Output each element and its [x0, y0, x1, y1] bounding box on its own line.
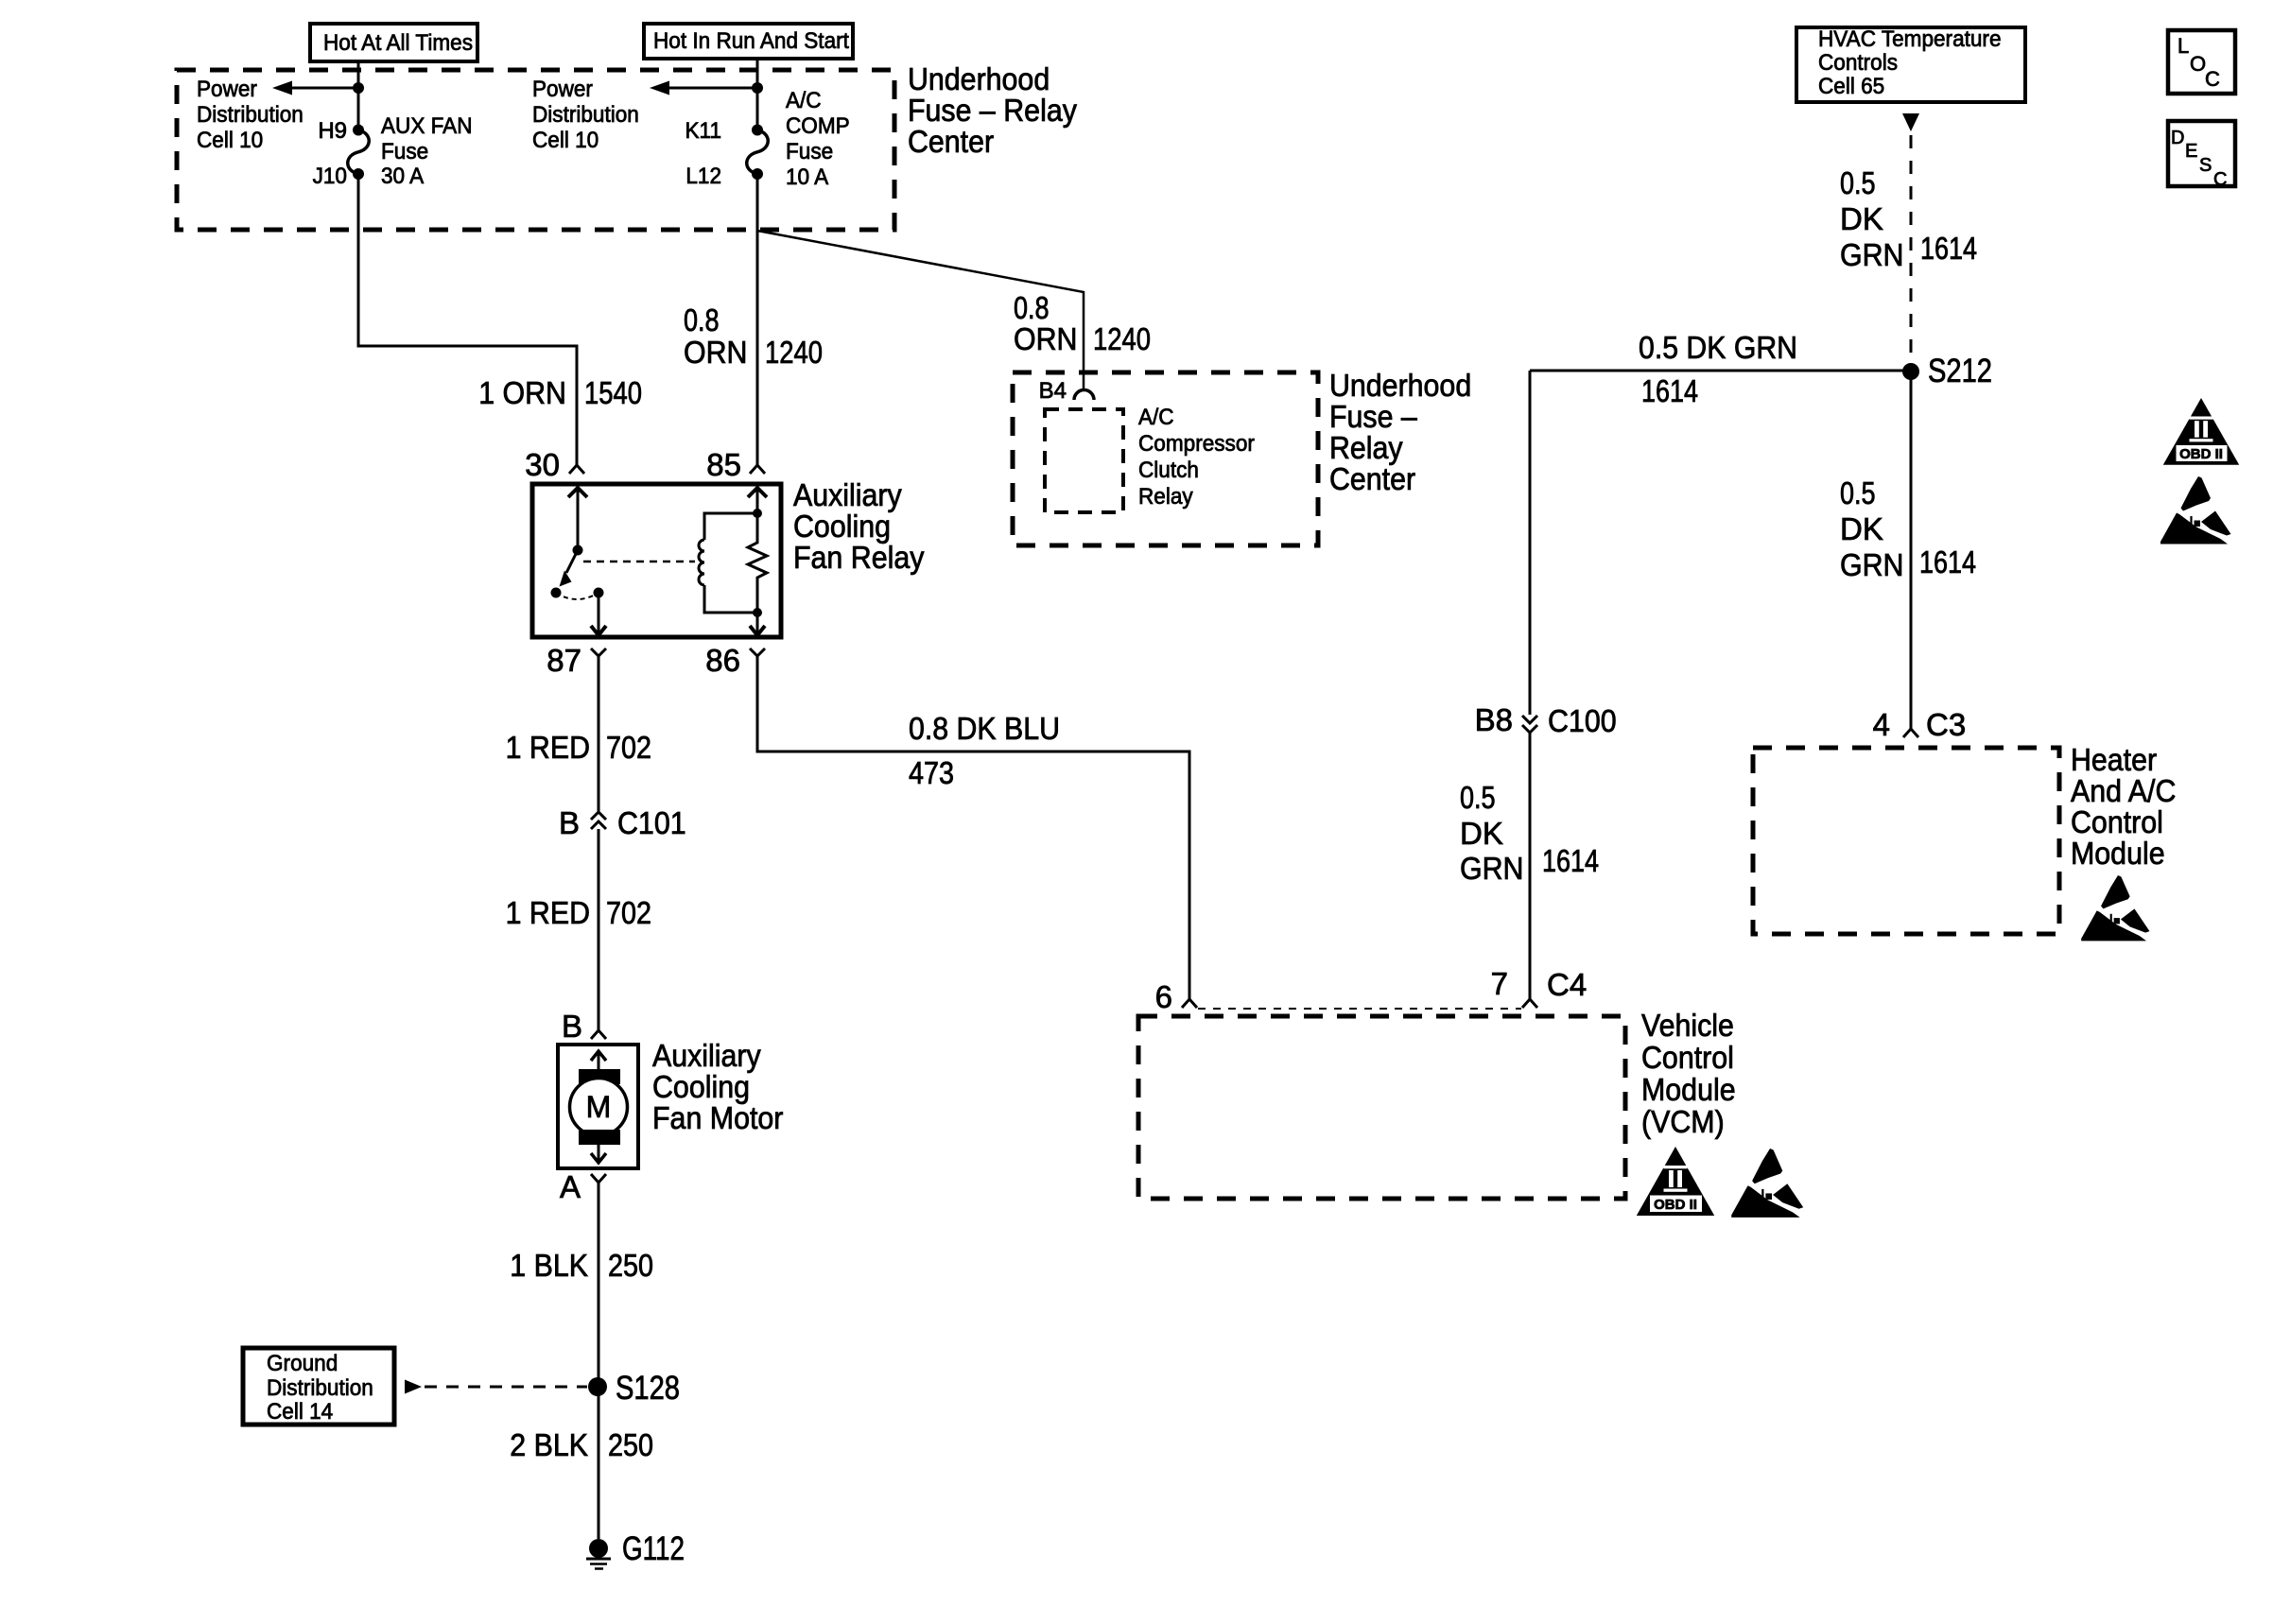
node junction on wire 1	[353, 82, 364, 94]
node coil bottom	[753, 608, 762, 617]
VCM dashed box	[1138, 1016, 1625, 1199]
svg-text:Fuse: Fuse	[786, 139, 833, 164]
svg-text:250: 250	[608, 1248, 653, 1283]
label Power Distribution Cell 10 (left)	[197, 77, 304, 153]
svg-text:E: E	[2185, 141, 2197, 162]
svg-text:OBD II: OBD II	[2179, 446, 2223, 462]
connector B4 arc	[1074, 390, 1094, 401]
connector chevron pin 30	[569, 465, 584, 474]
svg-text:Underhood: Underhood	[908, 61, 1050, 96]
arrow to Power Distribution (right)	[650, 81, 757, 95]
svg-text:B: B	[559, 805, 580, 840]
arrow to Power Distribution (left)	[272, 81, 358, 95]
ESD symbol (top right)	[2160, 476, 2231, 544]
label Underhood Fuse - Relay Center 2	[1329, 368, 1471, 496]
svg-text:87: 87	[547, 643, 581, 678]
dashed wire HVAC to S212	[1910, 135, 1913, 362]
splice S128	[588, 1377, 607, 1396]
svg-text:0.8: 0.8	[684, 302, 720, 337]
arrow triangle below HVAC box	[1902, 113, 1919, 131]
svg-text:Heater: Heater	[2071, 742, 2157, 777]
label 0.8 DK BLU 473	[909, 711, 1060, 790]
HVAC Temperature Controls Cell 65 box	[1796, 26, 2025, 102]
svg-text:1 BLK: 1 BLK	[510, 1248, 588, 1283]
relay internal wire to pin 87 arrow	[591, 593, 606, 635]
label AUX FAN Fuse 30 A	[381, 113, 473, 189]
svg-text:6: 6	[1155, 979, 1172, 1014]
svg-text:Cooling: Cooling	[652, 1069, 750, 1104]
svg-text:Cell 14: Cell 14	[267, 1399, 333, 1425]
A/C Compressor Clutch Relay inner dashed box	[1045, 409, 1123, 512]
dashed wire to S128	[425, 1386, 587, 1389]
svg-text:C: C	[2213, 169, 2227, 190]
header box Hot In Run And Start	[644, 24, 853, 59]
connector chevron motor pin A	[591, 1174, 606, 1183]
svg-text:250: 250	[608, 1427, 653, 1462]
fuse F1 AUX FAN 30A	[348, 125, 370, 181]
resistor R1 (relay)	[748, 513, 767, 613]
svg-text:B4: B4	[1039, 378, 1067, 404]
svg-text:DK: DK	[1840, 201, 1883, 236]
svg-text:Ground: Ground	[267, 1351, 338, 1376]
svg-text:Fan Motor: Fan Motor	[652, 1100, 783, 1135]
svg-text:G112: G112	[622, 1530, 685, 1567]
connector C100 chevrons	[1522, 716, 1537, 733]
svg-text:ORN: ORN	[1014, 321, 1078, 356]
svg-text:1540: 1540	[584, 375, 642, 410]
svg-text:AUX FAN: AUX FAN	[381, 113, 473, 139]
relay coil L1	[699, 513, 757, 613]
svg-text:C3: C3	[1926, 707, 1966, 742]
relay U1 Auxiliary Cooling Fan Relay box	[532, 484, 781, 637]
Ground Distribution Cell 14 box	[243, 1348, 394, 1425]
svg-text:0.5 DK GRN: 0.5 DK GRN	[1639, 330, 1797, 365]
svg-text:GRN: GRN	[1460, 851, 1524, 886]
label 0.8 ORN 1240 (wire 2)	[684, 302, 823, 370]
svg-text:Auxiliary: Auxiliary	[652, 1038, 761, 1073]
connector chevron pin 4 C3	[1903, 729, 1918, 737]
svg-text:B8: B8	[1475, 702, 1513, 737]
svg-text:DK: DK	[1460, 816, 1503, 851]
relay pin 30 internal arrow	[568, 488, 587, 550]
svg-text:10 A: 10 A	[786, 164, 828, 190]
svg-text:Fuse: Fuse	[381, 139, 428, 164]
svg-text:B: B	[562, 1009, 582, 1044]
svg-text:D: D	[2171, 128, 2184, 148]
OBD II symbol (VCM)	[1637, 1147, 1714, 1216]
label 0.5 DK GRN 1614 (top)	[1840, 165, 1977, 272]
label Heater And A/C Control Module	[2071, 742, 2176, 871]
label 1 RED 702 (upper)	[506, 730, 651, 765]
svg-text:ORN: ORN	[684, 335, 748, 370]
svg-text:(VCM): (VCM)	[1641, 1104, 1725, 1139]
svg-text:C101: C101	[617, 805, 686, 840]
svg-text:Relay: Relay	[1138, 484, 1193, 510]
svg-text:Vehicle: Vehicle	[1641, 1008, 1734, 1043]
label 1 RED 702 (lower)	[506, 895, 651, 930]
wire corner down to C100	[1529, 371, 1532, 715]
motor M1 Auxiliary Cooling Fan Motor	[558, 1045, 638, 1168]
connector chevron pin 7	[1522, 999, 1537, 1008]
svg-text:C100: C100	[1548, 703, 1617, 738]
svg-text:Underhood: Underhood	[1329, 368, 1471, 403]
svg-text:Module: Module	[2071, 836, 2165, 871]
svg-text:1614: 1614	[1920, 231, 1977, 266]
svg-text:0.5: 0.5	[1460, 780, 1496, 815]
svg-text:Hot At All Times: Hot At All Times	[323, 30, 473, 56]
svg-text:2 BLK: 2 BLK	[510, 1427, 588, 1462]
svg-text:Power: Power	[532, 77, 593, 102]
wire C101 down to motor	[598, 829, 600, 1030]
svg-text:Auxiliary: Auxiliary	[793, 477, 902, 512]
relay switch contact node	[551, 588, 562, 598]
svg-text:Distribution: Distribution	[532, 102, 639, 128]
svg-text:473: 473	[909, 755, 954, 790]
DESC box	[2168, 121, 2235, 190]
label A/C Compressor Clutch Relay	[1138, 405, 1255, 510]
relay coil control dashed line	[583, 561, 695, 563]
wire pin 86 to VCM pin 6	[757, 656, 1189, 999]
wire C100 down to VCM pin 7	[1529, 733, 1532, 999]
svg-text:C4: C4	[1547, 967, 1587, 1002]
svg-text:1 ORN: 1 ORN	[478, 375, 566, 410]
svg-text:Module: Module	[1641, 1072, 1736, 1107]
wire S212 down to C3	[1910, 371, 1913, 729]
wire from Hot At All Times into fuse box	[357, 61, 360, 130]
fuse F2 A/C COMP 10A	[747, 125, 769, 181]
svg-text:L: L	[2178, 34, 2189, 58]
svg-text:Power: Power	[197, 77, 257, 102]
svg-text:702: 702	[606, 730, 651, 765]
node junction on wire 2	[752, 82, 763, 94]
svg-text:OBD II: OBD II	[1654, 1197, 1697, 1213]
svg-text:Compressor: Compressor	[1138, 431, 1255, 457]
svg-text:Fuse –: Fuse –	[1329, 399, 1417, 434]
ESD symbol (VCM)	[1731, 1149, 1803, 1218]
label A/C COMP Fuse 10 A	[786, 88, 850, 190]
wire L12 down to relay pin 85	[756, 174, 759, 465]
splice S212	[1902, 363, 1919, 380]
svg-text:And A/C: And A/C	[2071, 773, 2176, 808]
connector chevron pin 87	[591, 648, 606, 656]
relay switch blade	[560, 550, 579, 587]
svg-text:GRN: GRN	[1840, 547, 1904, 582]
svg-text:1614: 1614	[1919, 544, 1976, 579]
label Vehicle Control Module (VCM)	[1641, 1008, 1736, 1139]
connector chevron pin 86	[750, 648, 765, 656]
svg-text:0.8 DK BLU: 0.8 DK BLU	[909, 711, 1060, 746]
svg-text:A/C: A/C	[786, 88, 822, 113]
relay pin 85 internal arrow	[748, 488, 767, 513]
wire J10 to relay pin 30	[358, 174, 577, 465]
svg-text:Center: Center	[1329, 461, 1415, 496]
svg-text:702: 702	[606, 895, 651, 930]
OBD II symbol (top right)	[2163, 398, 2239, 465]
svg-text:J10: J10	[313, 164, 347, 189]
svg-text:GRN: GRN	[1840, 237, 1904, 272]
ESD symbol (Heater module)	[2081, 875, 2149, 941]
label 0.5 DK GRN 1614 (right)	[1840, 475, 1976, 582]
label Auxiliary Cooling Fan Motor	[652, 1038, 783, 1135]
svg-text:1240: 1240	[765, 335, 823, 370]
wire from Hot In Run And Start into fuse box	[756, 59, 759, 130]
svg-text:H9: H9	[318, 118, 347, 144]
svg-text:O: O	[2190, 52, 2206, 76]
svg-text:4: 4	[1873, 707, 1890, 742]
label 1 BLK 250	[510, 1248, 653, 1283]
connector chevron pin 85	[750, 465, 765, 474]
svg-text:S128: S128	[616, 1370, 680, 1407]
relay internal wire to pin 86 arrow	[750, 613, 765, 635]
connector C101 chevrons	[591, 812, 606, 829]
relay switch pivot node	[573, 545, 583, 556]
svg-text:Relay: Relay	[1329, 430, 1403, 465]
label Underhood Fuse - Relay Center	[908, 61, 1077, 159]
svg-text:1 RED: 1 RED	[506, 895, 590, 930]
connector chevron motor pin B	[591, 1030, 606, 1039]
label 1 ORN 1540	[478, 375, 642, 410]
LOC box	[2168, 30, 2235, 94]
internal dashed wire pin6 to pin7	[1198, 1008, 1521, 1010]
Underhood Fuse-Relay Center dashed box	[177, 70, 894, 230]
svg-text:S: S	[2199, 155, 2212, 176]
svg-text:Cooling: Cooling	[793, 509, 891, 544]
svg-text:0.5: 0.5	[1840, 475, 1876, 510]
svg-text:Distribution: Distribution	[197, 102, 304, 128]
svg-text:0.8: 0.8	[1014, 290, 1050, 325]
svg-text:1240: 1240	[1093, 321, 1151, 356]
connector chevron pin 6	[1182, 999, 1197, 1008]
Underhood Fuse-Relay Center dashed box 2	[1013, 372, 1318, 545]
svg-text:C: C	[2205, 67, 2220, 91]
relay switch dashed arc	[556, 593, 599, 599]
label 0.5 DK GRN 1614 (horizontal)	[1639, 330, 1797, 408]
arrow from ground distribution	[405, 1380, 422, 1394]
ground G112	[586, 1530, 685, 1569]
label 2 BLK 250	[510, 1427, 653, 1462]
label Power Distribution Cell 10 (right)	[532, 77, 639, 153]
svg-text:30: 30	[525, 447, 560, 482]
node coil top	[753, 509, 762, 518]
svg-text:HVAC Temperature: HVAC Temperature	[1818, 26, 2002, 52]
svg-text:Cell 10: Cell 10	[532, 128, 599, 153]
svg-text:DK: DK	[1840, 511, 1883, 546]
svg-text:S212: S212	[1928, 353, 1992, 389]
svg-text:K11: K11	[685, 118, 722, 144]
wire motor A down to G112	[598, 1183, 600, 1539]
svg-text:Clutch: Clutch	[1138, 458, 1199, 483]
label 0.5 DK GRN 1614 (middle)	[1460, 780, 1599, 886]
svg-text:Cell 65: Cell 65	[1818, 74, 1884, 99]
svg-text:M: M	[586, 1090, 612, 1124]
svg-text:L12: L12	[685, 164, 721, 189]
svg-text:Fuse – Relay: Fuse – Relay	[908, 93, 1077, 128]
svg-text:Distribution: Distribution	[267, 1375, 373, 1401]
wire diagonal branch to A/C compressor clutch relay	[757, 231, 1084, 389]
relay contact node to pin 87	[594, 588, 604, 598]
Heater And A/C Control Module dashed box	[1753, 748, 2059, 934]
svg-text:Controls: Controls	[1818, 50, 1898, 76]
svg-text:1614: 1614	[1542, 843, 1599, 878]
wire pin 87 down to C101	[598, 656, 600, 811]
svg-text:A: A	[560, 1169, 581, 1204]
svg-text:1 RED: 1 RED	[506, 730, 590, 765]
label Auxiliary Cooling Fan Relay	[793, 477, 925, 575]
svg-text:A/C: A/C	[1138, 405, 1174, 430]
svg-text:Fan Relay: Fan Relay	[793, 540, 925, 575]
svg-text:Hot In Run And Start: Hot In Run And Start	[653, 28, 849, 54]
svg-text:COMP: COMP	[786, 113, 850, 139]
svg-text:7: 7	[1491, 966, 1508, 1001]
svg-text:Control: Control	[1641, 1040, 1734, 1075]
label 0.8 ORN 1240 (branch)	[1014, 290, 1151, 356]
svg-text:Cell 10: Cell 10	[197, 128, 263, 153]
svg-text:0.5: 0.5	[1840, 165, 1876, 200]
header box Hot At All Times	[310, 24, 477, 61]
svg-text:30 A: 30 A	[381, 164, 424, 189]
svg-text:Center: Center	[908, 124, 994, 159]
svg-text:Control: Control	[2071, 804, 2163, 839]
svg-text:1614: 1614	[1641, 373, 1698, 408]
svg-text:85: 85	[706, 447, 741, 482]
svg-text:86: 86	[705, 643, 740, 678]
wire horizontal from corner to S212	[1530, 370, 1911, 372]
